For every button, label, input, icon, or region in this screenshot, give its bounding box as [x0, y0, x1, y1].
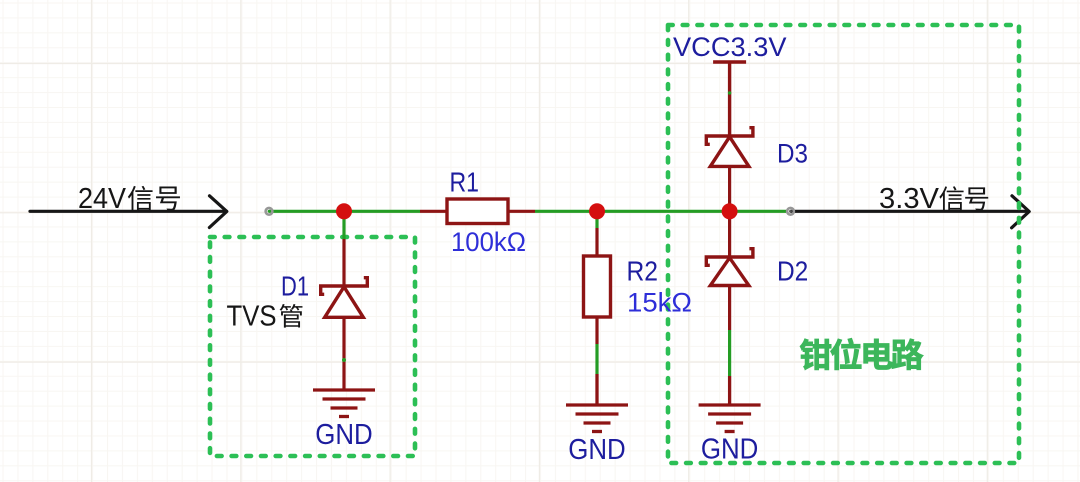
power symbol VCC3.3V — [713, 62, 746, 136]
label 24V信号 — [78, 183, 180, 215]
svg-text:100kΩ: 100kΩ — [451, 227, 526, 257]
junction node at R2 — [589, 203, 605, 219]
output arrow: 3.3V signal — [791, 196, 1029, 228]
clamp circuit dashed box — [668, 25, 1019, 463]
svg-text:15kΩ: 15kΩ — [627, 288, 692, 318]
wire junction to D2 — [728, 211, 731, 257]
wire D3 to junction — [728, 167, 731, 211]
svg-text:GND: GND — [315, 419, 373, 451]
svg-text:GND: GND — [701, 434, 759, 466]
svg-text:R2: R2 — [627, 256, 659, 287]
wire: junction to R2 — [595, 211, 598, 228]
svg-text:D1: D1 — [281, 271, 309, 302]
wire D2 to GND — [728, 330, 731, 376]
TVS section dashed box — [210, 237, 415, 456]
label 3.3V信号 — [879, 183, 988, 215]
diode D2 pin bottom — [728, 286, 731, 330]
svg-text:3.3V: 3.3V — [879, 183, 940, 215]
wire: main net right segment — [535, 210, 786, 213]
junction node at D1 — [336, 203, 352, 219]
resistor R1 — [447, 199, 508, 224]
diode D1 pin top — [342, 239, 345, 286]
junction node at D2/D3 — [722, 203, 738, 219]
ground symbol (D2) — [699, 376, 761, 432]
label 钳位电路 (clamp circuit) — [800, 338, 923, 370]
diode D1 pin bottom / wire to GND — [342, 318, 345, 391]
pin end dot D1 — [342, 358, 346, 362]
svg-text:D2: D2 — [777, 256, 808, 287]
label TVS管 — [227, 301, 303, 333]
svg-text:24V: 24V — [78, 183, 127, 215]
wire: junction to D1 — [342, 211, 345, 239]
svg-text:VCC3.3V: VCC3.3V — [673, 32, 787, 62]
svg-text:TVS: TVS — [227, 301, 277, 333]
ground symbol (TVS) — [313, 390, 375, 417]
resistor R1 pins — [420, 210, 535, 213]
diode D3 — [706, 128, 753, 167]
svg-text:GND: GND — [568, 434, 626, 466]
unconnected pin marker right — [787, 208, 794, 215]
ground symbol (R2) — [566, 374, 628, 432]
resistor R2 — [584, 256, 611, 317]
svg-text:D3: D3 — [777, 138, 808, 168]
pin end dot D3 — [728, 91, 731, 94]
unconnected pin marker left — [266, 208, 273, 215]
diode D2 — [706, 249, 753, 286]
svg-text:R1: R1 — [450, 167, 480, 198]
diode D1 (TVS) — [321, 278, 368, 318]
wire R2 to GND — [595, 344, 598, 374]
resistor R2 pins — [595, 228, 598, 344]
wire: main net left segment — [269, 210, 420, 213]
input arrow: 24V signal — [30, 196, 227, 228]
